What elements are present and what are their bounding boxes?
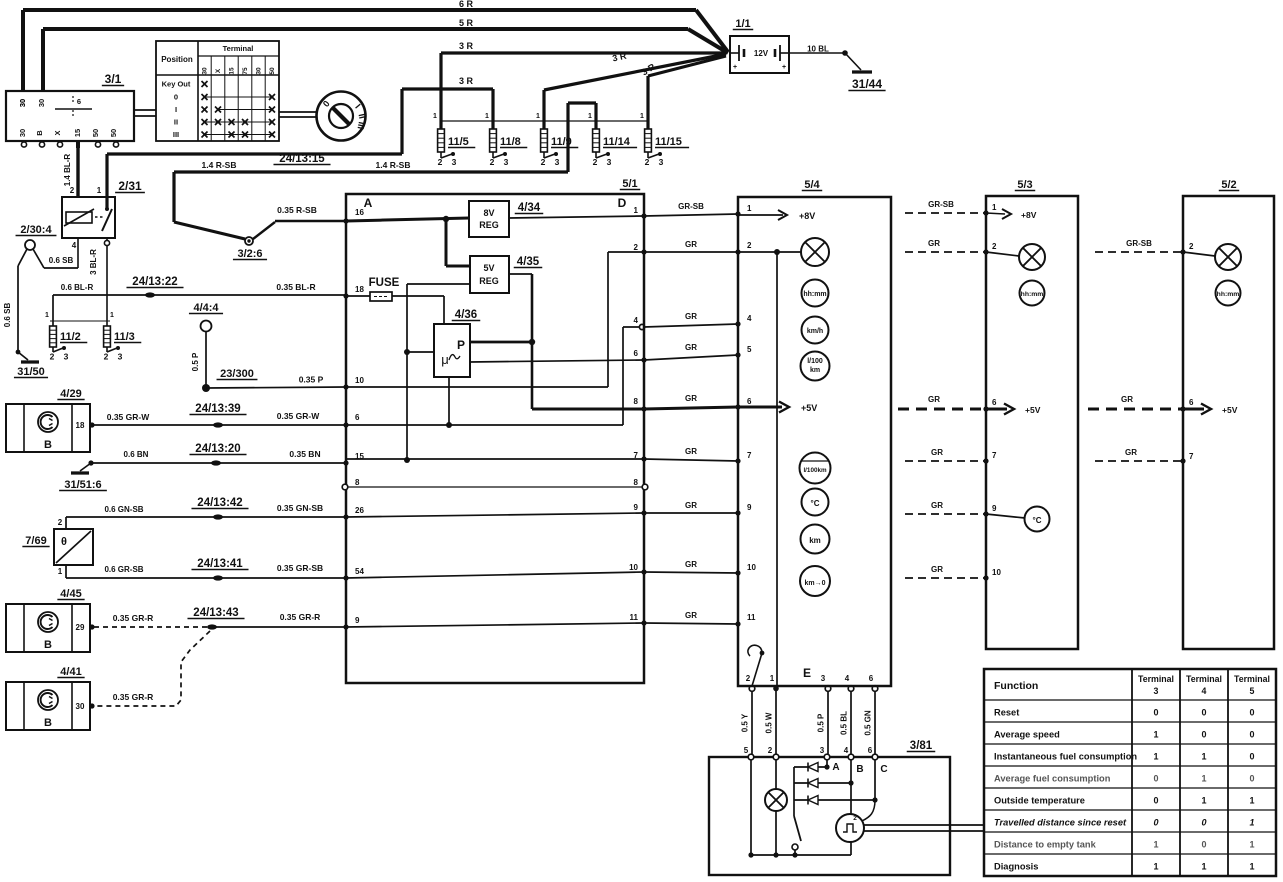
svg-text:1: 1 [58,567,63,576]
svg-text:5/4: 5/4 [804,179,820,191]
svg-text:hh:mm: hh:mm [1021,291,1044,298]
svg-text:0: 0 [1249,708,1254,718]
svg-text:5V: 5V [483,263,494,273]
svg-text:+5V: +5V [1025,405,1041,415]
svg-text:0.5 Y: 0.5 Y [741,713,750,732]
svg-text:0: 0 [1249,752,1254,762]
svg-text:1: 1 [1153,840,1158,850]
svg-text:0.35 GR-SB: 0.35 GR-SB [277,563,323,573]
svg-text:0.35 GR-R: 0.35 GR-R [113,692,154,702]
svg-text:16: 16 [355,208,364,217]
svg-text:18: 18 [355,285,364,294]
svg-text:1: 1 [1153,730,1158,740]
svg-text:Average speed: Average speed [994,730,1060,740]
svg-text:Key Out: Key Out [162,80,191,89]
svg-text:3: 3 [821,674,826,683]
svg-text:4: 4 [72,241,77,250]
svg-text:0: 0 [1201,708,1206,718]
svg-text:GR: GR [931,501,943,510]
svg-text:2: 2 [593,157,598,167]
svg-text:3: 3 [452,157,457,167]
svg-text:1: 1 [992,203,997,212]
svg-text:Terminal: Terminal [1234,674,1270,684]
svg-text:30: 30 [37,99,46,107]
svg-text:0: 0 [1153,796,1158,806]
svg-text:Function: Function [994,680,1038,692]
svg-text:D: D [618,196,627,210]
svg-text:2: 2 [747,241,752,250]
svg-text:GR: GR [685,394,697,403]
svg-text:15: 15 [229,67,236,75]
svg-text:30: 30 [202,67,209,75]
svg-text:C: C [880,764,887,775]
svg-text:4: 4 [747,314,752,323]
svg-text:9: 9 [355,616,360,625]
svg-text:18: 18 [76,421,85,430]
svg-text:24/13:15: 24/13:15 [279,153,325,165]
svg-text:15: 15 [73,129,82,137]
svg-text:11/5: 11/5 [448,136,469,148]
svg-text:1: 1 [1249,796,1254,806]
svg-text:9: 9 [747,503,752,512]
svg-text:6: 6 [869,674,874,683]
svg-text:GR: GR [685,501,697,510]
svg-text:GR: GR [928,395,940,404]
svg-text:4: 4 [845,674,850,683]
svg-text:12V: 12V [754,49,769,58]
svg-text:5 R: 5 R [459,18,474,28]
svg-text:7: 7 [1189,452,1194,461]
svg-text:3 BL-R: 3 BL-R [89,249,98,275]
svg-text:+: + [782,64,786,71]
svg-text:Terminal: Terminal [1138,674,1174,684]
svg-text:0.5 BL: 0.5 BL [840,711,849,735]
svg-text:24/13:39: 24/13:39 [195,403,240,415]
svg-text:I: I [175,105,177,114]
svg-text:75: 75 [242,67,249,75]
svg-text:l/100: l/100 [807,358,823,365]
svg-text:Travelled distance since reset: Travelled distance since reset [994,818,1127,828]
svg-text:P: P [457,338,465,352]
svg-text:30: 30 [18,129,27,137]
svg-text:7: 7 [992,451,997,460]
svg-text:4/41: 4/41 [60,666,81,678]
svg-text:μ: μ [441,352,449,367]
svg-text:E: E [803,666,811,680]
svg-text:24/13:43: 24/13:43 [193,607,238,619]
svg-text:0.5 P: 0.5 P [191,352,200,371]
svg-text:1: 1 [536,113,540,120]
svg-text:+5V: +5V [801,403,817,413]
svg-text:4: 4 [634,316,639,325]
svg-text:0: 0 [1201,840,1206,850]
svg-text:1: 1 [485,113,489,120]
svg-text:9: 9 [634,503,639,512]
svg-text:2: 2 [768,746,773,755]
svg-text:2: 2 [104,352,109,362]
svg-text:6: 6 [747,397,752,406]
svg-text:2: 2 [992,242,997,251]
svg-text:Terminal: Terminal [1186,674,1222,684]
svg-text:GR: GR [685,611,697,620]
svg-text:km/h: km/h [807,328,823,335]
svg-text:GR: GR [928,239,940,248]
svg-text:3: 3 [504,157,509,167]
svg-text:0: 0 [1249,774,1254,784]
svg-text:6: 6 [1189,398,1194,407]
svg-text:4/34: 4/34 [518,202,541,214]
svg-text:0.35 P: 0.35 P [299,375,324,385]
svg-text:GR-SB: GR-SB [928,200,954,209]
svg-text:2: 2 [1189,242,1194,251]
svg-text:1: 1 [747,204,752,213]
svg-text:9: 9 [992,504,997,513]
svg-text:°C: °C [811,499,820,508]
svg-text:30: 30 [76,702,85,711]
svg-text:III: III [173,130,179,139]
svg-text:hh:mm: hh:mm [803,291,826,298]
svg-text:GR: GR [685,447,697,456]
svg-text:B: B [44,439,52,451]
svg-text:5/3: 5/3 [1017,179,1032,191]
svg-text:B: B [44,639,52,651]
svg-text:2: 2 [438,157,443,167]
svg-text:1: 1 [588,113,592,120]
svg-text:REG: REG [479,220,499,230]
svg-text:Instantaneous fuel consumption: Instantaneous fuel consumption [994,752,1137,762]
svg-text:hh:mm: hh:mm [1217,291,1240,298]
svg-text:1.4 BL-R: 1.4 BL-R [63,154,72,187]
svg-text:0: 0 [174,93,178,102]
svg-text:2/30:4: 2/30:4 [20,224,52,236]
svg-text:11/14: 11/14 [603,136,631,148]
svg-text:1: 1 [45,312,49,319]
svg-text:6: 6 [355,413,360,422]
svg-text:0.6 GR-SB: 0.6 GR-SB [104,565,143,574]
svg-text:1: 1 [1201,862,1206,872]
svg-text:3/81: 3/81 [910,740,933,752]
svg-text:0.6 BN: 0.6 BN [124,450,149,459]
svg-text:B: B [35,130,44,136]
svg-text:1: 1 [97,186,102,195]
svg-text:1.4 R-SB: 1.4 R-SB [376,160,411,170]
svg-text:24/13:41: 24/13:41 [197,558,243,570]
svg-text:km: km [809,536,821,545]
svg-text:l/100km: l/100km [803,467,827,474]
svg-text:4/35: 4/35 [517,256,540,268]
svg-text:1: 1 [1249,818,1254,828]
svg-text:km: km [810,367,820,374]
svg-text:6: 6 [992,398,997,407]
svg-text:11/2: 11/2 [60,331,81,343]
svg-text:4/4:4: 4/4:4 [193,302,219,314]
svg-text:0.35 R-SB: 0.35 R-SB [277,205,317,215]
svg-text:6: 6 [77,97,81,106]
svg-text:10: 10 [355,376,364,385]
svg-text:FUSE: FUSE [369,277,400,289]
svg-text:km→0: km→0 [804,580,825,587]
svg-text:GR: GR [931,565,943,574]
svg-text:3/2:6: 3/2:6 [237,248,262,260]
svg-text:50: 50 [269,67,276,75]
svg-text:0: 0 [1201,818,1206,828]
svg-text:5: 5 [747,345,752,354]
svg-text:54: 54 [355,567,364,576]
svg-text:0.6 SB: 0.6 SB [49,256,74,265]
svg-text:4: 4 [1202,686,1207,696]
svg-text:GR: GR [685,560,697,569]
svg-text:3: 3 [64,352,69,362]
svg-text:11: 11 [630,613,639,622]
svg-text:50: 50 [109,129,118,137]
svg-text:8V: 8V [483,208,494,218]
svg-text:3: 3 [820,746,825,755]
svg-text:1: 1 [634,206,639,215]
svg-text:Average fuel consumption: Average fuel consumption [994,774,1111,784]
svg-text:7/69: 7/69 [25,535,46,547]
svg-text:23/300: 23/300 [220,368,254,380]
svg-text:8: 8 [634,478,639,487]
svg-text:1: 1 [433,113,437,120]
svg-text:24/13:20: 24/13:20 [195,443,240,455]
svg-text:3: 3 [118,352,123,362]
svg-text:Diagnosis: Diagnosis [994,862,1038,872]
svg-text:11/3: 11/3 [114,331,135,343]
svg-text:0.35 GR-W: 0.35 GR-W [107,412,150,422]
svg-text:1: 1 [1249,840,1254,850]
svg-text:θ: θ [61,536,67,548]
svg-text:0: 0 [1201,730,1206,740]
svg-text:26: 26 [355,506,364,515]
svg-text:31/44: 31/44 [852,77,882,91]
svg-text:3: 3 [659,157,664,167]
svg-text:GR-SB: GR-SB [1126,239,1152,248]
svg-text:Reset: Reset [994,708,1019,718]
svg-text:+8V: +8V [799,211,815,221]
svg-text:2: 2 [746,674,751,683]
svg-text:1.4 R-SB: 1.4 R-SB [202,160,237,170]
svg-text:X: X [53,130,62,135]
svg-text:+8V: +8V [1021,210,1037,220]
svg-text:1: 1 [110,312,114,319]
svg-text:0.35 BL-R: 0.35 BL-R [276,282,315,292]
svg-text:4/29: 4/29 [60,388,81,400]
svg-text:B: B [856,764,863,775]
svg-text:2: 2 [50,352,55,362]
svg-text:11: 11 [747,613,756,622]
svg-text:0.5 P: 0.5 P [817,713,826,732]
svg-text:+5V: +5V [1222,405,1238,415]
svg-text:0.35 GN-SB: 0.35 GN-SB [277,503,323,513]
svg-text:0.35 GR-R: 0.35 GR-R [113,613,154,623]
svg-text:0.35 GR-R: 0.35 GR-R [280,612,321,622]
svg-text:1: 1 [1201,752,1206,762]
svg-text:0.35 BN: 0.35 BN [289,449,320,459]
svg-text:°C: °C [1033,516,1042,525]
svg-text:B: B [44,717,52,729]
svg-text:A: A [364,196,373,210]
svg-text:10: 10 [629,563,638,572]
svg-text:2: 2 [490,157,495,167]
svg-text:24/13:42: 24/13:42 [197,497,242,509]
svg-text:1: 1 [1153,752,1158,762]
svg-text:2: 2 [58,518,63,527]
svg-text:0: 0 [1249,730,1254,740]
svg-text:0.6 BL-R: 0.6 BL-R [61,283,94,292]
svg-text:8: 8 [634,397,639,406]
svg-text:4/45: 4/45 [60,588,81,600]
svg-text:II: II [174,118,178,127]
svg-text:2/31: 2/31 [118,179,142,193]
svg-text:10: 10 [747,563,756,572]
svg-text:3: 3 [1154,686,1159,696]
svg-text:5/2: 5/2 [1221,179,1236,191]
svg-text:Terminal: Terminal [223,44,254,53]
svg-text:2: 2 [634,243,639,252]
svg-text:31/50: 31/50 [17,366,45,378]
svg-text:1: 1 [1153,862,1158,872]
svg-text:4/36: 4/36 [455,309,477,321]
svg-text:7: 7 [747,451,752,460]
svg-text:3 R: 3 R [459,76,474,86]
svg-text:REG: REG [479,276,499,286]
svg-text:A: A [832,762,839,773]
svg-text:6 R: 6 R [459,0,474,9]
svg-text:0: 0 [1153,708,1158,718]
svg-text:10 BL: 10 BL [807,45,829,54]
svg-text:5/1: 5/1 [622,178,637,190]
svg-text:X: X [215,68,222,73]
svg-text:1: 1 [1201,774,1206,784]
svg-text:1: 1 [1201,796,1206,806]
svg-text:GR: GR [1125,448,1137,457]
svg-text:2: 2 [70,186,75,195]
svg-text:1/1: 1/1 [735,18,750,30]
svg-text:Distance to empty tank: Distance to empty tank [994,840,1097,850]
svg-text:Outside temperature: Outside temperature [994,796,1085,806]
svg-text:3: 3 [607,157,612,167]
svg-text:GR: GR [685,240,697,249]
svg-text:29: 29 [76,623,85,632]
svg-text:3 R: 3 R [459,41,474,51]
svg-text:8: 8 [355,478,360,487]
svg-text:GR: GR [685,343,697,352]
svg-text:31/51:6: 31/51:6 [64,479,101,491]
svg-text:3/1: 3/1 [105,72,122,86]
svg-text:0.6 SB: 0.6 SB [3,303,12,328]
svg-text:2: 2 [853,815,857,822]
svg-text:50: 50 [91,129,100,137]
svg-text:1: 1 [1249,862,1254,872]
svg-text:0.5 GN: 0.5 GN [864,710,873,736]
svg-text:0.35 GR-W: 0.35 GR-W [277,411,320,421]
svg-text:6: 6 [634,349,639,358]
svg-text:0: 0 [1153,774,1158,784]
svg-text:2: 2 [541,157,546,167]
svg-text:11/8: 11/8 [500,136,521,148]
svg-text:0: 0 [1153,818,1158,828]
svg-text:5: 5 [744,746,749,755]
svg-text:Position: Position [161,55,193,64]
svg-text:GR-SB: GR-SB [678,202,704,211]
svg-text:0.6 GN-SB: 0.6 GN-SB [104,505,143,514]
svg-text:10: 10 [992,568,1001,577]
svg-text:11/15: 11/15 [655,136,682,148]
svg-text:0.5 W: 0.5 W [765,712,774,733]
svg-text:30: 30 [256,67,263,75]
svg-text:5: 5 [1250,686,1255,696]
svg-text:4: 4 [844,746,849,755]
svg-text:6: 6 [868,746,873,755]
svg-text:3: 3 [555,157,560,167]
svg-text:GR: GR [1121,395,1133,404]
svg-text:1: 1 [770,674,775,683]
svg-text:GR: GR [685,312,697,321]
svg-text:GR: GR [931,448,943,457]
svg-text:+: + [733,64,737,71]
svg-text:30: 30 [18,99,27,107]
svg-text:24/13:22: 24/13:22 [132,276,177,288]
svg-text:1: 1 [640,113,644,120]
svg-text:2: 2 [645,157,650,167]
